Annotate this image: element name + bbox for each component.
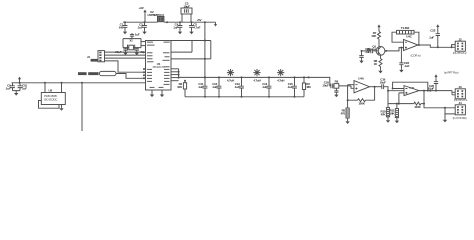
ground R10 [386,119,390,123]
junction [178,77,180,79]
junction feedback A [374,86,376,88]
junction bus bottom [241,96,243,98]
signal bus horizontal [179,76,309,78]
wire IC pin right [171,71,179,73]
junction on input rail [61,82,63,84]
wire base shunt [361,51,363,56]
wire vcc to C22 [437,29,439,34]
wire R10 to ground [387,117,389,119]
wire to J4 pin1 [424,104,455,108]
junction bus top [218,76,220,78]
junction at IC pin RB3 [143,77,145,79]
wire pin bus vertical [178,69,180,78]
ground IC pin 2 [160,94,164,98]
pin label RB2 [147,75,152,76]
wire bus to R3 [303,77,305,83]
power rail end arrow [214,24,217,27]
junction on power rail [204,21,206,23]
svg-text:(OUTPUT-2: (OUTPUT-2 [453,51,467,55]
junction at IC pin RB0 [143,68,145,70]
svg-text:T1-600: T1-600 [401,26,410,30]
wire bias cap [400,48,402,63]
pin label right 4 [164,69,170,70]
resistor R8 emitter [379,59,382,67]
junction bias node [387,90,389,92]
svg-text:.1uF: .1uF [198,85,204,89]
wire bus to coupling cap [309,77,331,86]
junction at IC pin RB2 [143,74,145,76]
junction R6 output [423,90,425,92]
resistor R10 bias [386,108,389,117]
svg-text:4.7uH: 4.7uH [253,78,260,82]
svg-text:.1uF: .1uF [365,50,371,54]
capacitor C14 shunt [267,77,272,96]
wire OSC2 to IC [141,45,146,47]
svg-text:(to XYZ Mix): (to XYZ Mix) [453,116,467,120]
wire U3 return loop [39,101,60,109]
power rail left segment [123,21,157,23]
junction C20 output [435,90,437,92]
pin label CLKIN [147,45,155,46]
capacitor C25 base coupling [371,49,373,54]
wire U3 pin out [61,83,63,93]
svg-text:1uF: 1uF [22,87,27,91]
wire vcc to C20 [435,79,437,82]
wire IC pin loop 2 [171,41,211,59]
svg-text:.1uF: .1uF [287,85,293,89]
wire output into J3 [452,91,455,95]
ground C23 [399,69,403,73]
capacitor C19 [382,84,384,89]
ground C21 [359,60,363,64]
pin label right 2 [163,60,170,61]
wire vcc to input rail [19,81,21,83]
svg-text:.1uF: .1uF [212,85,218,89]
capacitor C20 [434,82,438,91]
wire R6 to output [421,91,424,104]
svg-text:U3: U3 [49,89,53,93]
wire Q1 emitter [380,55,382,59]
wire J4 ground [444,114,446,119]
pin label right 8 [164,81,170,82]
ground under capacitor C2 [142,31,146,35]
junction on input rail [19,82,21,84]
crystal X1 [129,45,134,50]
capacitor C2 [142,22,147,30]
wire R8 to ground [380,67,382,70]
wire feedback A return [348,85,358,101]
resistor R6 [414,102,421,105]
VCC arrow near J2 [436,24,439,28]
power rail right segment [164,21,216,23]
capacitor C15 shunt [292,77,297,96]
junction [178,74,180,76]
junction base node [361,50,363,52]
wire IC pin right [171,74,179,76]
junction collector node [385,50,387,52]
svg-text:4.7uH: 4.7uH [227,78,234,82]
wire C25 left [362,50,371,52]
pin label RA1 [147,55,153,56]
svg-text:X1: X1 [129,39,133,43]
capacitor C10 [18,83,23,91]
ground R11 [395,120,399,124]
svg-text:LM78M05C-5: LM78M05C-5 [148,13,165,17]
svg-text:(to RPT Rcv): (to RPT Rcv) [444,71,459,75]
resistor R7 [378,32,381,40]
capacitor C7 crystal load [135,48,139,52]
pin label right 1 [165,56,170,57]
IC U3 DC-DC converter [41,93,65,105]
wire feedback A down [366,87,375,101]
svg-text:4.7uF: 4.7uF [193,26,200,30]
wire T1 to - input [392,32,404,42]
junction bias [400,47,402,49]
wire into op-amp A + input [351,86,354,88]
junction [204,58,206,60]
junction output [429,90,431,92]
ground under capacitor C1 [123,31,127,35]
junction R2 top [184,80,186,82]
wire collector to op-amp + input [385,48,404,51]
pin label RA2 [147,58,153,59]
VCC arrow input supply [18,77,21,81]
capacitor C5 [189,22,194,30]
ground R8 [378,70,382,74]
resistor R11 bias [395,109,398,118]
capacitor C8 [130,33,134,39]
junction R3 top [303,76,305,78]
pin label right 3 [164,66,170,67]
ground under capacitor C4 [178,31,182,35]
wire Q1 base [373,50,378,52]
wire op-amp B - input and upper feedback [393,82,428,90]
wire IC pin right [171,80,179,82]
capacitor C12 shunt [217,77,222,96]
connector J4 header [455,105,465,115]
junction bus bottom [268,96,270,98]
junction bus top [268,76,270,78]
pin label right 6 [164,75,170,76]
junction J4 [444,107,446,109]
svg-text:10uF: 10uF [428,87,435,91]
crystal loop wiring [123,39,141,48]
svg-text:+5V: +5V [197,18,202,22]
ground J4 [443,119,447,123]
wire IC ground pin 2 [161,90,163,94]
svg-text:.1uF: .1uF [262,85,268,89]
capacitor C22 [436,34,440,48]
pin label right 9 [164,84,170,85]
wire to J4 pin2 [445,108,455,114]
svg-text:180: 180 [306,85,311,89]
junction [178,71,180,73]
wire IC top right [171,40,211,42]
wire U3 pin in [44,83,46,93]
junction on power rail [191,21,193,23]
ground under C7 [135,52,139,56]
capacitor C6 crystal load [123,48,127,52]
resistor R2 [183,83,186,89]
svg-text:PIC16C71: PIC16C71 [153,65,165,69]
wire into J2 pin1 [452,45,456,48]
svg-text:ISO DC/DC: ISO DC/DC [44,98,58,102]
pin label RA0 [147,52,153,53]
capacitor C4 [178,22,183,30]
svg-text:470: 470 [341,112,346,116]
wire U4C output to J2 [418,45,455,47]
capacitor C21 base shunt [359,56,363,60]
ground under C6 [123,52,127,56]
wire U3 ground pin [61,105,63,108]
capacitor C18 coupling [331,84,333,89]
junction R11 [396,103,398,105]
wire R7 to Q1 collector [378,39,380,47]
wire to R2 [184,81,186,83]
pin label right 7 [164,78,170,79]
resistor R9 series [334,84,339,89]
wire J1 pin3 to IC [105,57,146,59]
junction [204,76,206,78]
pin label GND1 [150,87,155,88]
ground bus horizontal [185,96,304,98]
junction bus output [308,76,310,78]
junction U4C output [418,44,420,46]
ground IC pin 1 [150,94,154,98]
resistor R3 [302,83,305,90]
resistor R4 feedback [358,99,366,102]
svg-text:242: 242 [119,26,124,30]
capacitor C3 bridge [182,14,191,22]
junction bus top [204,76,206,78]
pin label OSC2 [164,42,170,43]
junction [451,46,453,48]
wire op-amp B output [419,90,452,92]
junction at IC pin [143,71,145,73]
op-amp U4C [404,39,419,50]
connector J3 output header [455,89,465,99]
wire R5 to ground [347,118,349,120]
op-amp U4A [354,81,370,93]
wire A out to C19 [376,86,382,88]
VCC arrow tone section [377,24,380,28]
junction bus top [294,76,296,78]
svg-text:.1uF: .1uF [404,64,410,68]
svg-text:R9: R9 [335,80,339,84]
svg-text:C22: C22 [430,28,435,32]
wire +5V down to bus [204,22,206,77]
junction R5 [347,99,349,101]
regulator U2 LM78M05 body [157,16,164,21]
wire cap commons to ground [13,91,21,92]
resistor R5 [346,108,349,118]
pin label MCLR [147,61,154,62]
connector J1 SER PGM header [98,51,105,62]
wire OSC1 to IC [141,41,146,43]
svg-text:J1: J1 [87,55,90,59]
junction bus bottom [294,96,296,98]
inductor L3 [277,69,284,76]
wire C19 to op-amp B [384,87,404,91]
wire T1 to output [414,32,419,45]
wire op-amp A output [370,86,377,88]
ground R5 [345,120,349,124]
capacitor C13 shunt [239,77,244,96]
junction B minus [392,88,394,90]
pin label right 0 [163,52,170,53]
junction bus top [241,76,243,78]
junction on power rail [124,21,126,23]
connector J2 coax body [99,71,116,75]
svg-text:100K: 100K [358,101,365,105]
label SER PGM [91,59,98,62]
capacitor C9 [10,83,15,91]
svg-text:10uF: 10uF [380,80,387,84]
ground U3 [59,107,63,111]
pin label GND2 [159,87,164,88]
svg-text:1uF: 1uF [135,32,140,36]
ground C24 [334,94,338,98]
wire op-amp B + loop [388,93,414,104]
inductor L2 [253,69,260,76]
wire R11 to ground [396,118,398,120]
connector J2 coax label [78,72,87,75]
transformer T1 [397,30,415,34]
ground under capacitor C5 [189,31,193,35]
capacitor C11 shunt [203,77,208,96]
junction [437,46,439,48]
svg-text:10uF: 10uF [322,84,329,88]
pin label right 5 [164,72,170,73]
ground input caps [14,92,18,96]
svg-text:.1uF: .1uF [429,36,435,40]
junction on power rail [144,21,146,23]
capacitor C24 shunt [334,88,338,93]
wire from +9V to rail [144,14,146,22]
junction bus bottom [204,96,206,98]
pin label RB1 [147,72,152,73]
wire R3 to ground bus [303,90,305,97]
wire IC pin right [171,68,179,70]
junction on input rail [44,82,46,84]
capacitor C23 [399,63,403,69]
wire to R5 [347,100,349,108]
wire J1 pin4 to IC [105,61,146,72]
pin label OSC1 [147,42,153,43]
wire op-amp A - input [348,84,354,86]
wire to R11 [396,104,398,109]
svg-text:.1uF: .1uF [234,85,240,89]
svg-text:4.7uH: 4.7uH [277,78,284,82]
junction on power rail [179,21,181,23]
junction [204,40,206,42]
inductor L1 [227,69,234,76]
wire IC ground pin 1 [151,90,153,94]
svg-text:+9V: +9V [139,6,144,10]
VCC arrow near J3 [434,74,437,78]
svg-text:.1uF: .1uF [137,26,143,30]
long vertical wire to bottom [81,83,83,131]
op-amp U4B [404,86,419,96]
wire bias node down [387,91,389,104]
svg-text:.1uF: .1uF [5,87,11,91]
VCC arrow +9V input [143,10,146,14]
wire R2 to ground bus [184,89,186,97]
junction bus bottom [218,96,220,98]
wire IC pin right [171,77,179,79]
wire J2 to IC [116,74,146,79]
svg-text:100K: 100K [414,105,421,109]
input supply rail [12,82,146,84]
wire vcc to R7 [378,29,380,32]
pin label RB0 [147,69,152,70]
capacitor C1 [123,22,128,30]
wire J1 pin2 to IC [105,54,146,56]
pin label RB3 [147,78,152,79]
junction [423,103,425,105]
connector J2 output header [455,41,465,51]
svg-text:10uF: 10uF [183,5,190,9]
pin label RB4 [147,81,152,82]
junction B output feedback [427,90,429,92]
transistor Q1 [376,47,385,56]
wire IC pin loop 1 [171,41,192,53]
wire J1 pin1 to IC [105,51,146,53]
svg-text:U4B: U4B [409,86,414,90]
junction on power rail [166,21,168,23]
IC U1 PIC16C71 [146,41,172,91]
junction bias loop [398,103,400,105]
svg-text:.1uF: .1uF [173,26,179,30]
junction on input rail [81,82,83,84]
svg-text:(COR in): (COR in) [411,54,421,58]
